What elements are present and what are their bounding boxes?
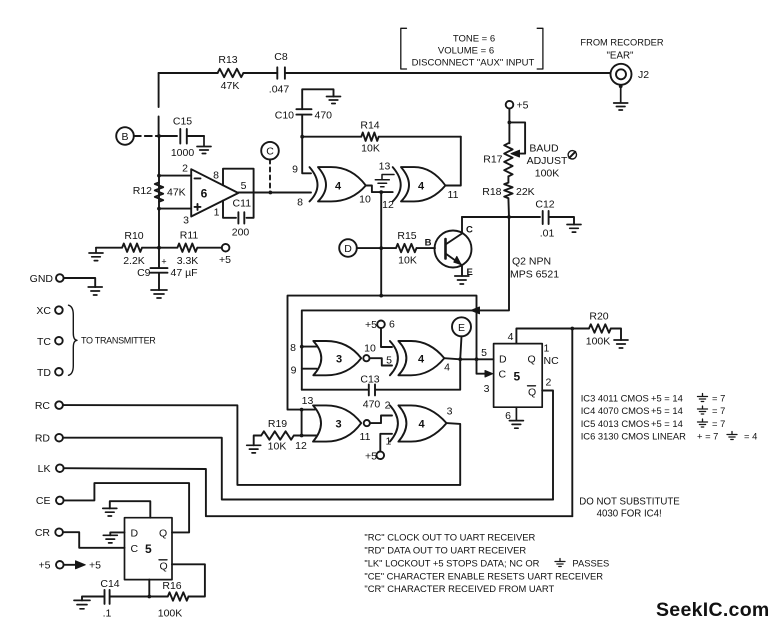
svg-text:DISCONNECT "AUX" INPUT: DISCONNECT "AUX" INPUT: [412, 58, 535, 69]
IC power notes: [581, 393, 758, 442]
XOR gate IC4a pins 9,8,10: [292, 164, 371, 209]
svg-text:R12: R12: [133, 185, 152, 197]
svg-text:TO TRANSMITTER: TO TRANSMITTER: [81, 336, 156, 346]
svg-text:10K: 10K: [398, 255, 417, 267]
svg-text:+5: +5: [365, 451, 377, 463]
ground at pin 13 of IC4b: [375, 161, 394, 187]
svg-text:+5: +5: [517, 100, 529, 112]
ground at IC5a set pin: [103, 508, 117, 516]
node E: [452, 317, 471, 359]
ground at C15: [197, 136, 211, 154]
wire R20 node down to LK line: [571, 329, 573, 517]
NOR gate IC3a pins 8,9,10: [290, 341, 376, 377]
svg-text:2: 2: [182, 163, 188, 175]
XOR gate IC4c pins 6,5,4: [390, 341, 450, 375]
svg-text:1: 1: [214, 207, 220, 219]
svg-text:C11: C11: [233, 198, 252, 210]
wire op-amp output to gate pin 8: [270, 192, 311, 194]
svg-text:11: 11: [360, 431, 371, 443]
terminal RC: [35, 400, 460, 485]
ground at IC5a D input: [103, 535, 117, 543]
wire op-amp output: [238, 191, 272, 195]
wire Q2 collector line to NOR inputs: [300, 217, 509, 390]
svg-text:R20: R20: [589, 311, 608, 323]
terminal GND: [30, 273, 96, 287]
svg-text:8: 8: [213, 170, 219, 182]
svg-text:TD: TD: [37, 367, 51, 379]
svg-text:47 µF: 47 µF: [171, 267, 198, 279]
svg-text:= 7: = 7: [712, 405, 725, 416]
svg-text:13: 13: [379, 161, 391, 173]
svg-text:4030 FOR IC4!: 4030 FOR IC4!: [597, 509, 662, 520]
svg-text:+5 = 14: +5 = 14: [651, 393, 683, 404]
resistor R11: [159, 230, 222, 268]
XOR gate IC4d pins 2,1,3: [390, 405, 453, 441]
svg-text:Q: Q: [160, 561, 168, 573]
svg-text:XC: XC: [36, 305, 51, 317]
terminal LK: [38, 463, 573, 516]
svg-text:IC6 3130 CMOS LINEAR: IC6 3130 CMOS LINEAR: [581, 431, 686, 442]
svg-text:6: 6: [201, 187, 208, 201]
svg-text:NC: NC: [544, 355, 560, 367]
svg-text:+5 = 14: +5 = 14: [651, 405, 683, 416]
wire gate IC4b output up to R14 line: [445, 137, 460, 186]
flip-flop IC5b box: [481, 331, 559, 422]
svg-text:"RC" CLOCK OUT TO UART RECEIV: "RC" CLOCK OUT TO UART RECEIVER: [364, 532, 535, 543]
svg-text:DO NOT SUBSTITUTE: DO NOT SUBSTITUTE: [579, 497, 680, 508]
terminal TD: [37, 367, 63, 379]
resistor R12: [133, 182, 186, 201]
resistor R20 with ground: [572, 311, 621, 348]
svg-text:TC: TC: [37, 336, 51, 348]
svg-text:3.3K: 3.3K: [177, 255, 199, 267]
inline ground glyphs in IC notes: [698, 394, 738, 440]
svg-text:10K: 10K: [361, 143, 380, 155]
wire IC4c output to flip-flop D and C: [444, 357, 493, 377]
resistor R10: [96, 230, 161, 267]
capacitor C11 compensation box pins 1-8: [223, 169, 254, 239]
svg-text:Q: Q: [528, 387, 536, 399]
wire gate IC4a output to junction: [366, 186, 393, 195]
svg-text:"CR" CHARACTER RECEIVED FROM: "CR" CHARACTER RECEIVED FROM UART: [364, 583, 554, 594]
svg-text:1: 1: [544, 343, 550, 355]
svg-text:R16: R16: [162, 580, 181, 592]
svg-text:8: 8: [290, 342, 296, 354]
wire IC3b output to IC4d pin 2: [370, 400, 392, 424]
svg-text:+5: +5: [219, 254, 231, 266]
svg-text:4: 4: [335, 181, 342, 193]
svg-text:1000: 1000: [171, 147, 195, 159]
wire op-amp input pins: [159, 176, 191, 209]
wire left vertical from top bus to node B: [158, 73, 160, 136]
svg-text:C12: C12: [535, 199, 554, 211]
svg-text:IC3 4011 CMOS: IC3 4011 CMOS: [581, 393, 649, 404]
note DO NOT SUBSTITUTE: [579, 497, 680, 520]
svg-text:C15: C15: [173, 116, 192, 128]
svg-text:C8: C8: [274, 51, 288, 63]
NOR gate IC3b pins 13,12,11: [295, 395, 370, 452]
terminal CR: [35, 527, 125, 548]
svg-text:BAUD: BAUD: [529, 143, 559, 155]
svg-text:+5: +5: [89, 560, 101, 572]
svg-text:3: 3: [335, 419, 341, 431]
svg-text:4: 4: [418, 419, 425, 431]
svg-text:4: 4: [418, 181, 425, 193]
svg-text:= 7: = 7: [712, 393, 725, 404]
svg-text:C14: C14: [100, 578, 119, 590]
ground at C14: [74, 600, 90, 608]
resistor R14: [302, 120, 461, 155]
resistor R15: [381, 230, 435, 267]
svg-text:E: E: [458, 322, 465, 334]
svg-text:C9: C9: [137, 267, 151, 279]
svg-text:100K: 100K: [158, 608, 183, 620]
node B: [116, 127, 161, 145]
wire node B down to R12 and op-amp: [157, 136, 161, 248]
node C: [261, 142, 279, 193]
svg-text:13: 13: [302, 395, 314, 407]
op-amp U6 (IC6 3130): [182, 163, 247, 227]
svg-text:+ = 7: + = 7: [697, 431, 718, 442]
resistor R13: [218, 54, 244, 92]
wire Q2 collector to C12 node: [462, 215, 511, 219]
svg-text:9: 9: [291, 365, 297, 377]
ground at R20: [614, 340, 628, 348]
svg-text:RC: RC: [35, 400, 51, 412]
terminal +5 at R11: [219, 244, 231, 266]
ground at Q2 emitter: [455, 276, 469, 284]
svg-text:6: 6: [389, 319, 395, 331]
svg-text:R13: R13: [218, 54, 237, 66]
svg-text:D: D: [499, 354, 507, 366]
capacitor C9 47uF: [137, 248, 198, 290]
terminal RD: [35, 433, 553, 500]
svg-text:IC5 4013 CMOS: IC5 4013 CMOS: [581, 418, 650, 429]
svg-text:SeekIC.com: SeekIC.com: [656, 599, 770, 621]
svg-text:5: 5: [386, 355, 392, 367]
inline ground glyph in LK legend line: [555, 559, 565, 567]
svg-text:+5 = 14: +5 = 14: [651, 418, 683, 429]
svg-text:+5: +5: [39, 560, 51, 572]
svg-text:10K: 10K: [268, 441, 287, 453]
brace TO TRANSMITTER: [69, 305, 157, 375]
resistor R16: [147, 580, 188, 620]
svg-text:.047: .047: [269, 84, 290, 96]
note box TONE/VOLUME/AUX: [401, 28, 543, 69]
svg-text:.1: .1: [103, 608, 112, 620]
resistor R19 with ground: [254, 418, 302, 453]
wire top feedback bus: [159, 72, 610, 74]
wire IC5b pin 2 Qbar down to RD line: [542, 391, 553, 500]
ground at R19: [247, 445, 261, 453]
wire feedback loop top: [288, 294, 477, 410]
wire IC3a output to IC4c pin 5: [370, 355, 393, 367]
XOR gate IC4b pins 13,12,11: [382, 167, 458, 211]
ground at R10 left: [89, 248, 103, 261]
capacitor C12: [509, 199, 574, 240]
terminal TC: [37, 336, 63, 348]
ground at J2: [614, 84, 628, 110]
svg-text:+5: +5: [365, 319, 377, 331]
svg-text:C13: C13: [360, 374, 379, 386]
wire loop to NOR IC3b pin 12 tie: [300, 408, 317, 438]
svg-text:47K: 47K: [167, 187, 186, 199]
capacitor C8: [269, 51, 290, 96]
ground at GND terminal: [88, 287, 102, 295]
svg-text:4: 4: [418, 354, 425, 366]
capacitor C13 feedback: [302, 359, 460, 410]
svg-text:12: 12: [382, 199, 394, 211]
ground at C9: [151, 290, 167, 298]
svg-text:R19: R19: [268, 418, 287, 430]
svg-text:"EAR": "EAR": [606, 51, 634, 62]
svg-text:2.2K: 2.2K: [123, 255, 145, 267]
screw adjust symbol: [568, 151, 576, 159]
svg-text:12: 12: [295, 440, 307, 452]
svg-text:Q: Q: [528, 354, 536, 366]
svg-text:3: 3: [183, 215, 189, 227]
wire junction pins 10-12 down to node D row: [379, 192, 383, 296]
resistor R18: [482, 176, 534, 217]
svg-text:MPS 6521: MPS 6521: [510, 269, 559, 281]
svg-text:"CE" CHARACTER ENABLE RESETS: "CE" CHARACTER ENABLE RESETS UART RECEIV…: [364, 571, 603, 582]
flip-flop IC5a box: [125, 518, 173, 580]
svg-text:4: 4: [508, 331, 514, 343]
svg-text:= 4: = 4: [744, 431, 757, 442]
svg-text:5: 5: [481, 347, 487, 359]
capacitor C10 with ground: [275, 89, 334, 136]
svg-text:9: 9: [292, 164, 298, 176]
svg-text:CE: CE: [36, 495, 51, 507]
terminal XC: [36, 305, 62, 317]
ground at C10: [327, 97, 341, 104]
transistor Q2 NPN MPS6521: [425, 217, 560, 281]
svg-text:47K: 47K: [221, 80, 240, 92]
wire IC5b pin 4 to R20 node: [516, 327, 574, 344]
svg-text:R11: R11: [180, 230, 199, 242]
svg-text:"RD" DATA OUT TO UART RECEIV: "RD" DATA OUT TO UART RECEIVER: [364, 545, 526, 556]
svg-text:.01: .01: [540, 228, 555, 240]
svg-text:5: 5: [145, 542, 152, 556]
svg-text:C: C: [131, 543, 139, 555]
svg-text:R15: R15: [397, 230, 416, 242]
svg-text:B: B: [425, 238, 432, 249]
svg-text:= 7: = 7: [712, 418, 725, 429]
svg-text:R14: R14: [360, 120, 379, 132]
watermark SeekIC.com: [656, 599, 770, 621]
svg-text:TONE = 6: TONE = 6: [453, 34, 495, 45]
terminal +5 at IC4c pin 6: [365, 319, 395, 348]
svg-text:3: 3: [484, 383, 490, 395]
svg-text:R17: R17: [483, 154, 502, 166]
svg-text:FROM RECORDER: FROM RECORDER: [580, 38, 663, 48]
svg-text:100K: 100K: [535, 168, 560, 180]
svg-text:10: 10: [359, 194, 371, 206]
terminal CE: [36, 483, 189, 532]
svg-text:100K: 100K: [586, 336, 611, 348]
node D: [339, 239, 381, 257]
svg-text:5: 5: [241, 180, 247, 192]
potentiometer R17 BAUD ADJUST: [483, 122, 568, 179]
svg-text:3: 3: [447, 406, 453, 418]
svg-text:C: C: [466, 225, 473, 236]
legend text block: [364, 532, 609, 595]
svg-text:C: C: [266, 146, 274, 158]
wire IC5a D input to ground: [110, 532, 124, 535]
svg-text:470: 470: [363, 399, 381, 411]
svg-text:11: 11: [448, 189, 459, 201]
terminal +5 baud: [506, 100, 529, 144]
svg-text:Q: Q: [159, 528, 167, 540]
connector J2 FROM RECORDER EAR: [580, 38, 663, 85]
svg-text:Q2 NPN: Q2 NPN: [512, 256, 551, 268]
svg-text:CR: CR: [35, 527, 51, 539]
svg-text:5: 5: [514, 370, 521, 384]
svg-text:3: 3: [336, 354, 342, 366]
capacitor C15: [159, 116, 204, 160]
svg-text:470: 470: [315, 110, 333, 122]
svg-text:VOLUME = 6: VOLUME = 6: [438, 46, 494, 57]
svg-text:D: D: [131, 528, 139, 540]
svg-text:8: 8: [297, 197, 303, 209]
svg-text:22K: 22K: [516, 186, 535, 198]
capacitor C14: [82, 578, 149, 620]
svg-text:+: +: [161, 257, 166, 267]
svg-text:RD: RD: [35, 433, 51, 445]
svg-text:R18: R18: [482, 186, 501, 198]
svg-text:D: D: [344, 243, 352, 255]
ground at IC5b pin 6: [509, 407, 523, 428]
ground at C12: [567, 225, 581, 233]
wire IC4d output to RC line: [447, 423, 461, 485]
svg-text:R10: R10: [124, 230, 143, 242]
terminal +5 at IC4d pin 1: [365, 434, 392, 463]
svg-text:C10: C10: [275, 110, 294, 122]
svg-text:B: B: [121, 131, 128, 143]
svg-text:200: 200: [232, 227, 250, 239]
node junction C10/R14/pin9: [300, 135, 311, 174]
terminal +5 bottom with arrow: [39, 560, 102, 572]
svg-text:4: 4: [444, 362, 450, 374]
svg-text:IC4 4070 CMOS: IC4 4070 CMOS: [581, 405, 650, 416]
svg-text:10: 10: [364, 343, 376, 355]
svg-text:ADJUST: ADJUST: [527, 155, 568, 167]
wire IC5a Qbar to R16: [172, 564, 205, 596]
svg-text:C: C: [499, 369, 507, 381]
svg-text:J2: J2: [638, 69, 649, 81]
svg-text:"LK" LOCKOUT +5 STOPS DATA: "LK" LOCKOUT +5 STOPS DATA; NC OR: [364, 558, 539, 569]
svg-text:GND: GND: [30, 273, 54, 285]
svg-text:LK: LK: [38, 463, 51, 475]
svg-text:PASSES: PASSES: [572, 558, 609, 569]
wire IC5a set pin to ground: [110, 501, 151, 518]
svg-text:2: 2: [546, 377, 552, 389]
